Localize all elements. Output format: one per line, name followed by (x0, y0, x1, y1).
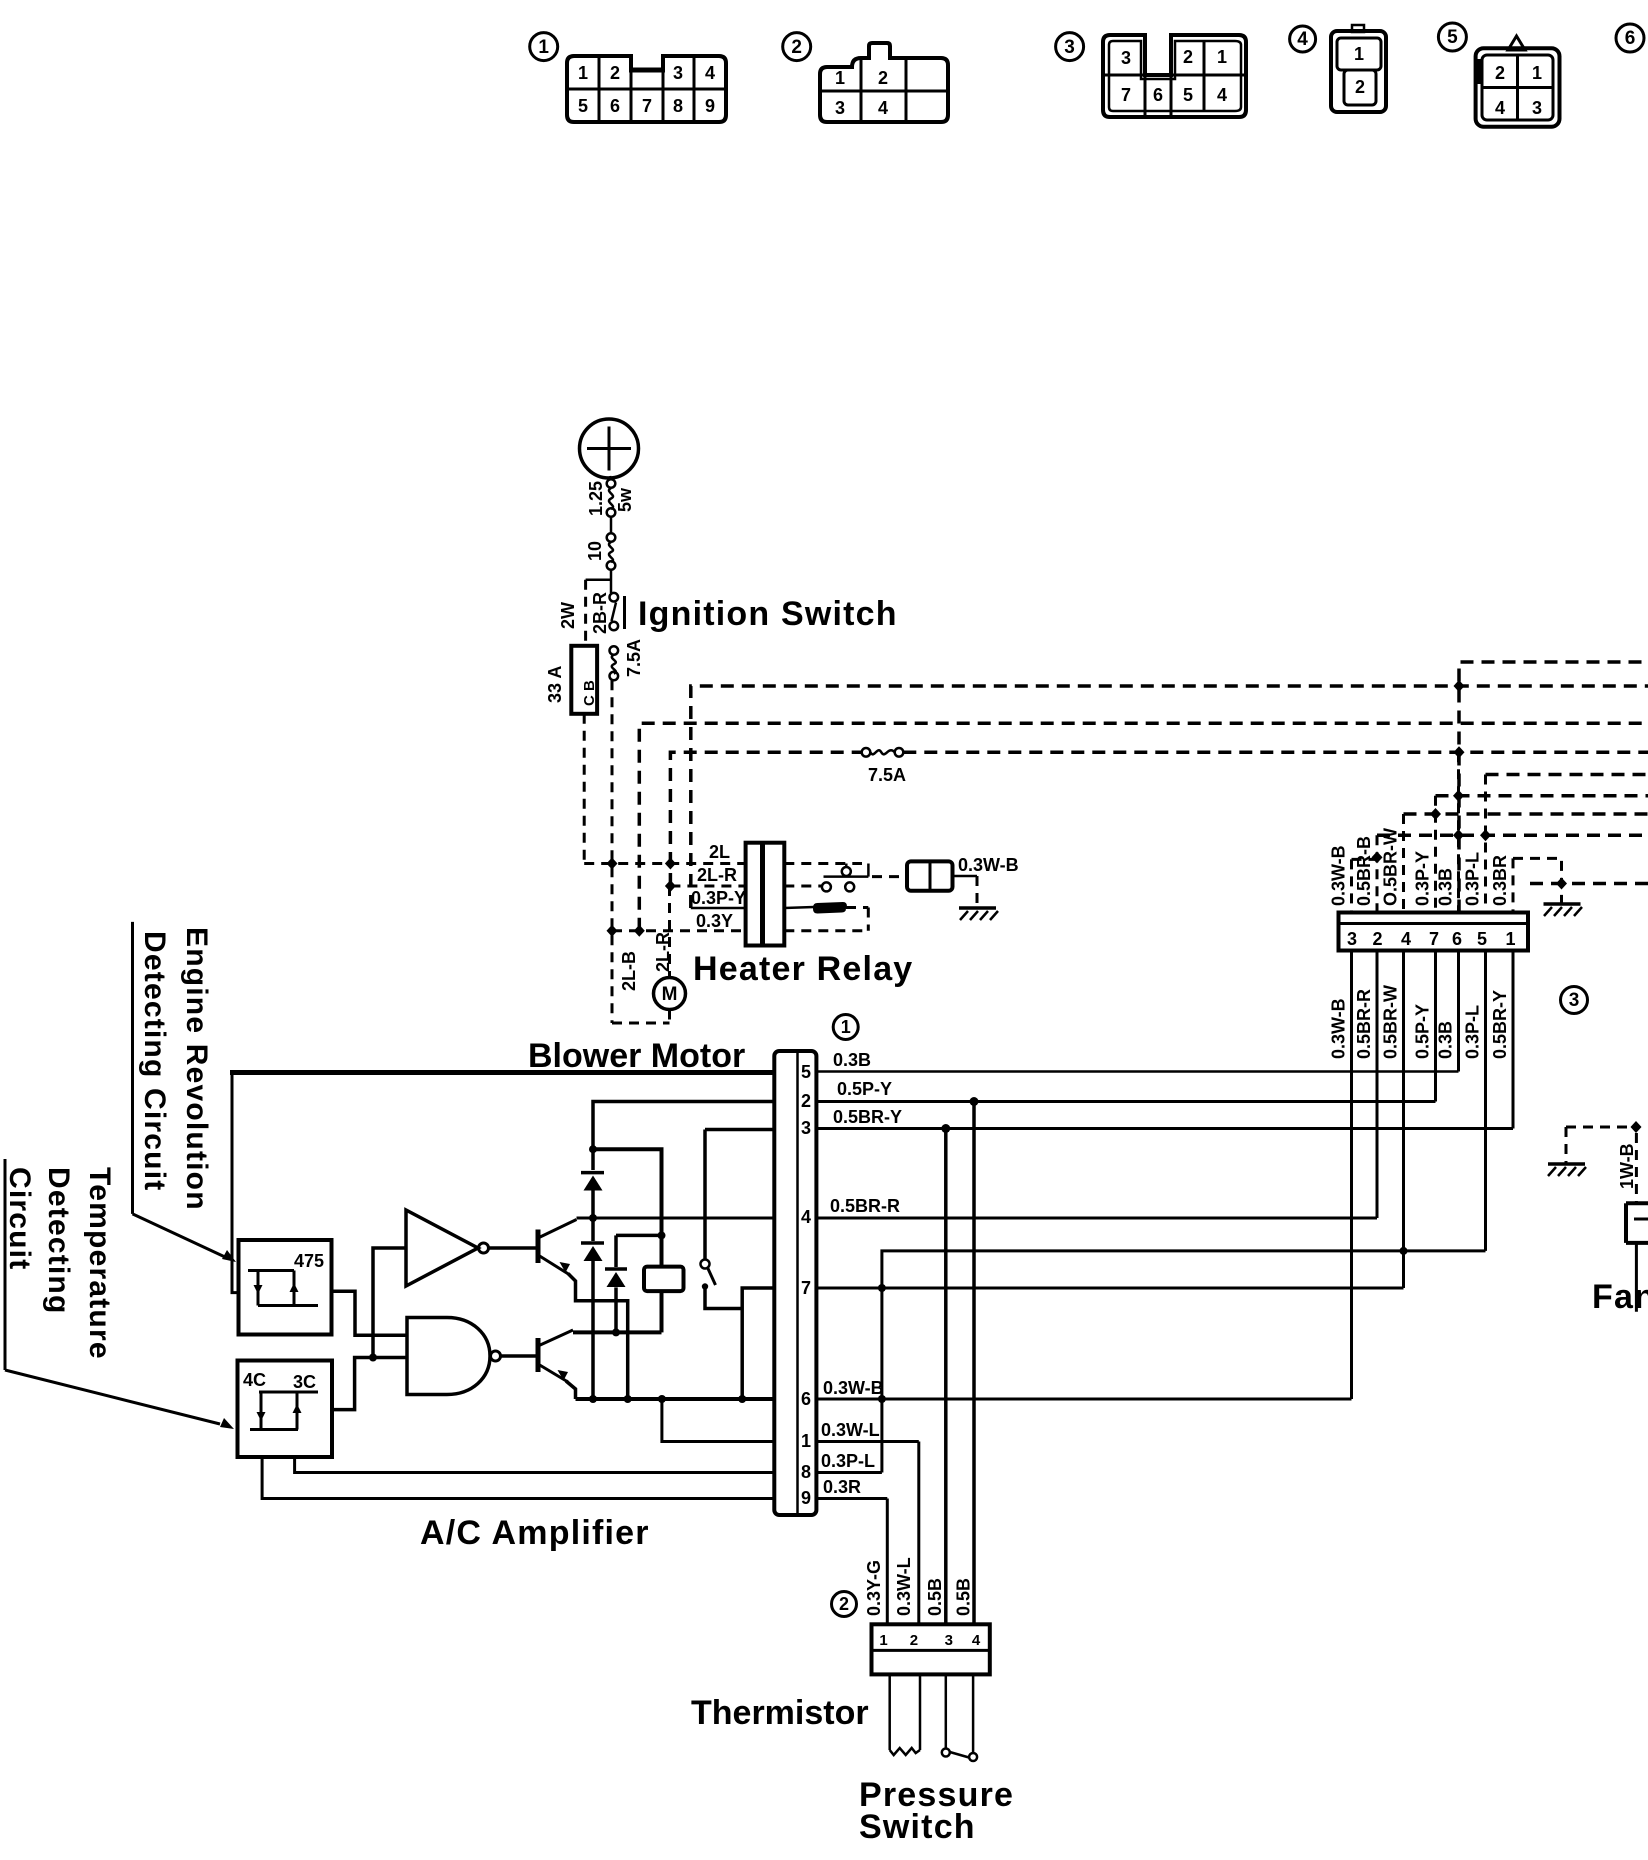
svg-text:9: 9 (801, 1488, 811, 1508)
wire 0.5BR-R pin4 right (816, 1196, 1377, 1218)
vertical column c3 to connector (1350, 951, 1353, 1399)
wire branch to relay coil top (593, 1149, 662, 1266)
svg-text:3: 3 (1064, 37, 1075, 58)
heater relay box (693, 843, 913, 988)
svg-text:0.3W-B: 0.3W-B (958, 855, 1019, 875)
svg-text:7: 7 (801, 1278, 811, 1298)
svg-text:A/C Amplifier: A/C Amplifier (420, 1514, 650, 1552)
svg-text:8: 8 (801, 1462, 811, 1482)
switch S1 (701, 1130, 743, 1309)
blower motor M (528, 886, 745, 1075)
svg-text:4: 4 (1217, 85, 1227, 105)
wire D3 top to coil wire (616, 1234, 662, 1238)
svg-text:2B-R: 2B-R (590, 592, 610, 634)
svg-text:1: 1 (1217, 47, 1227, 67)
wire 0.3P-Y (691, 907, 746, 910)
svg-text:2: 2 (1355, 77, 1365, 97)
svg-text:6: 6 (1625, 28, 1636, 49)
svg-text:0.3W-L: 0.3W-L (894, 1557, 914, 1616)
ground 1W-B (1548, 1121, 1642, 1203)
svg-text:0.5BR-Y: 0.5BR-Y (833, 1107, 902, 1127)
wire Q2 collector to relay coil (573, 1330, 662, 1334)
fuse 1.25 5W (586, 479, 635, 517)
thermistor/pressure connector (872, 1624, 990, 1674)
svg-text:5: 5 (1447, 27, 1458, 48)
svg-text:475: 475 (294, 1251, 324, 1271)
svg-text:Thermistor: Thermistor (691, 1694, 869, 1732)
connector 2 pinout (820, 43, 948, 122)
svg-text:5: 5 (1477, 929, 1487, 949)
svg-text:2L-R: 2L-R (697, 865, 737, 885)
wire input bus to inverter (373, 1248, 406, 1358)
svg-text:1: 1 (841, 1017, 851, 1037)
connector pair to ground (872, 855, 1019, 906)
svg-text:2: 2 (910, 1632, 918, 1649)
wire pin1 internal (662, 1399, 774, 1442)
svg-text:Temperature: Temperature (83, 1167, 116, 1360)
wire pin4 internal (Q1 collector) (577, 1217, 775, 1220)
vertical column c1 (1512, 951, 1515, 1129)
svg-text:0.5BR-B: 0.5BR-B (1354, 836, 1374, 906)
wire 4C3C out (332, 1358, 407, 1410)
dashed line 0.5BR-B to edge (1377, 834, 1648, 838)
bus line T4 dashed with fuse (670, 752, 861, 886)
transistor Q2 (538, 1330, 576, 1399)
svg-text:1: 1 (578, 63, 588, 83)
svg-text:5: 5 (801, 1062, 811, 1082)
svg-text:0.3B: 0.3B (1436, 868, 1456, 906)
svg-text:2: 2 (1495, 63, 1505, 83)
connector key 4 circled label (1290, 26, 1316, 52)
svg-text:2L-B: 2L-B (619, 951, 639, 991)
dashed line 0.5BR-W to edge (1404, 812, 1648, 816)
svg-text:0.5B: 0.5B (954, 1578, 974, 1616)
svg-text:1: 1 (801, 1431, 811, 1451)
fusible link 33 A (545, 646, 598, 714)
connector key 2 circled label (783, 33, 811, 61)
relay coil wire (784, 902, 868, 931)
wire 0.5P-Y pin2 right (816, 1079, 1435, 1106)
svg-text:1: 1 (879, 1632, 887, 1649)
svg-text:0.5BR-W: 0.5BR-W (1381, 985, 1401, 1059)
svg-text:3: 3 (1569, 990, 1580, 1011)
svg-text:2: 2 (1372, 929, 1382, 949)
svg-text:4: 4 (878, 98, 888, 118)
wire battery to fuse (610, 476, 611, 480)
wire pin5 thick (230, 1070, 774, 1075)
svg-text:0.5BR-R: 0.5BR-R (1354, 989, 1374, 1059)
svg-text:0.5B: 0.5B (925, 1578, 945, 1616)
wire pin7 internal (742, 1288, 774, 1399)
wire 0.3R pin9 right (816, 1477, 887, 1499)
pressure switch (859, 1674, 1014, 1846)
nand gate U2 (407, 1318, 501, 1395)
svg-text:0.3R: 0.3R (823, 1477, 861, 1497)
svg-text:6: 6 (1452, 929, 1462, 949)
vertical column c7 (1434, 951, 1437, 1102)
connector key 6 circled label (1616, 24, 1644, 52)
wire 0.3Y dashed (612, 929, 746, 932)
wire inverter out to Q1 base (489, 1246, 537, 1250)
svg-text:0.3W-B: 0.3W-B (1329, 998, 1349, 1059)
fuse 7.5A (610, 639, 645, 680)
connector key 3 circled label (1056, 33, 1084, 61)
wire pin2 internal corner (593, 1102, 774, 1171)
svg-text:3: 3 (1532, 98, 1542, 118)
wire pin6 internal thick (576, 1397, 775, 1401)
svg-text:Detecting Circuit: Detecting Circuit (138, 931, 171, 1191)
svg-text:33 A: 33 A (545, 666, 565, 703)
svg-text:2L: 2L (709, 842, 730, 862)
svg-text:2: 2 (801, 1091, 811, 1111)
svg-text:6: 6 (801, 1389, 811, 1409)
bus line T1 dashed (1459, 662, 1648, 913)
connector key 1 circled label (530, 33, 558, 61)
ground top right (1544, 904, 1583, 916)
wire 0.3Y-G col1 (886, 1499, 889, 1625)
svg-text:4C: 4C (243, 1370, 266, 1390)
dashed ground branch to edge (1530, 882, 1648, 886)
wire pin5 drop to box 475 (232, 1073, 239, 1293)
svg-text:4: 4 (801, 1207, 811, 1227)
svg-text:0.3P-L: 0.3P-L (1463, 1005, 1483, 1059)
wire 2L dashed (584, 862, 745, 865)
svg-text:2: 2 (839, 1594, 849, 1614)
svg-text:10: 10 (585, 541, 605, 561)
node diamonds on buses (1454, 680, 1465, 692)
svg-text:0.3BR: 0.3BR (1490, 855, 1510, 906)
bus line T3 dashed (639, 723, 1648, 931)
svg-text:3: 3 (835, 98, 845, 118)
svg-text:Fan: Fan (1592, 1278, 1648, 1316)
wire 0.3W-B pin6 right (816, 1378, 1351, 1399)
Q1 emitter arrowhead (560, 1262, 571, 1273)
svg-text:4: 4 (1401, 929, 1411, 949)
vertical column c4 (1402, 951, 1405, 1288)
svg-text:0.3P-Y: 0.3P-Y (691, 888, 746, 908)
wire dashed drop from fusible link (583, 714, 586, 864)
vertical column c5 (1484, 951, 1487, 1251)
svg-text:5: 5 (578, 96, 588, 116)
svg-text:5w: 5w (615, 487, 635, 512)
connector 3 pinout (1103, 35, 1246, 117)
svg-text:7.5A: 7.5A (624, 639, 644, 677)
svg-text:0.3P-L: 0.3P-L (1463, 852, 1483, 906)
svg-text:6: 6 (610, 96, 620, 116)
svg-text:2W: 2W (558, 602, 578, 629)
svg-text:0.3Y-G: 0.3Y-G (864, 1560, 884, 1616)
wire 0.5B col3 (944, 1129, 948, 1625)
vertical column c2 (1376, 951, 1379, 1218)
svg-text:7: 7 (642, 96, 652, 116)
wire nand out to Q2 base (501, 1354, 537, 1358)
svg-text:1W-B: 1W-B (1617, 1143, 1637, 1189)
svg-text:Heater Relay: Heater Relay (693, 950, 913, 988)
svg-text:4: 4 (972, 1632, 981, 1649)
relay contact wires (784, 864, 868, 892)
svg-text:9: 9 (705, 96, 715, 116)
wire dashed drop from 7.5A fuse (611, 680, 614, 1023)
svg-text:0.5BR-Y: 0.5BR-Y (1490, 990, 1510, 1059)
svg-text:Engine Revolution: Engine Revolution (180, 927, 213, 1211)
circled 2 (832, 1592, 857, 1617)
svg-text:M: M (662, 984, 678, 1005)
svg-text:3: 3 (673, 63, 683, 83)
svg-text:2: 2 (878, 68, 888, 88)
circled 1 (833, 1015, 858, 1040)
box 4C 3C (238, 1361, 333, 1458)
wire 0.5B col4 (972, 1102, 976, 1625)
junction diamonds (1453, 790, 1464, 802)
svg-text:4: 4 (1495, 98, 1505, 118)
svg-text:3: 3 (801, 1118, 811, 1138)
svg-text:3: 3 (1121, 48, 1131, 68)
svg-text:Detecting: Detecting (42, 1167, 75, 1315)
svg-text:0.3P-L: 0.3P-L (821, 1451, 875, 1471)
fuse 7.5A on bus (862, 748, 906, 785)
relay coil K1 (644, 1267, 684, 1333)
thermistor (691, 1674, 920, 1755)
node (369, 1354, 377, 1362)
bus line T2 dashed (691, 686, 1648, 908)
battery (580, 419, 639, 478)
svg-text:7: 7 (1429, 929, 1439, 949)
svg-text:0.5P-Y: 0.5P-Y (837, 1079, 892, 1099)
svg-text:1: 1 (1532, 63, 1542, 83)
svg-text:1: 1 (1354, 44, 1364, 64)
svg-text:0.3W-B: 0.3W-B (823, 1378, 884, 1398)
ignition switch (590, 592, 898, 634)
svg-text:0.3B: 0.3B (1436, 1021, 1456, 1059)
svg-text:0.3P-Y: 0.3P-Y (1413, 851, 1433, 906)
transistor Q1 (538, 1220, 628, 1400)
wire 2W dashed drop to fusible link (584, 580, 587, 646)
svg-text:O.5BR-W: O.5BR-W (1381, 828, 1401, 906)
vertical column c6 (1457, 951, 1460, 1072)
svg-text:7.5A: 7.5A (868, 765, 906, 785)
dashed bridge 0.3W-B (1352, 858, 1378, 861)
node diamond (607, 858, 618, 870)
svg-text:0.3B: 0.3B (833, 1050, 871, 1070)
leader arrow to 475 (133, 922, 237, 1262)
wire 2L-R dashed (670, 885, 745, 888)
svg-text:4: 4 (705, 63, 715, 83)
op-amp inverter U1 (406, 1210, 489, 1286)
A/C amplifier connector strip (774, 1051, 816, 1515)
svg-text:1: 1 (835, 68, 845, 88)
fuse 10 (585, 533, 615, 570)
fan connector (1626, 1203, 1648, 1311)
wire pin9 internal (262, 1457, 774, 1499)
svg-text:0.3W-B: 0.3W-B (1329, 845, 1349, 906)
wire pin3 internal (705, 1128, 774, 1132)
diode D1 (581, 1173, 604, 1241)
svg-text:8: 8 (673, 96, 683, 116)
leader arrow to 4C3C (5, 1159, 234, 1429)
svg-text:4: 4 (1297, 29, 1308, 50)
svg-text:3: 3 (945, 1632, 953, 1649)
connector key 5 circled label (1438, 23, 1466, 51)
svg-text:7: 7 (1121, 85, 1131, 105)
svg-text:2: 2 (1183, 47, 1193, 67)
dashed verticals above connector (1350, 859, 1353, 912)
svg-text:0.3W-L: 0.3W-L (821, 1420, 880, 1440)
svg-text:3: 3 (1347, 929, 1357, 949)
svg-text:3C: 3C (293, 1372, 316, 1392)
svg-text:2L-R: 2L-R (653, 932, 673, 972)
wire with 2W branch node (610, 570, 613, 593)
wire pin7 right (816, 1287, 1403, 1290)
wire branch 0.3W-B upper (882, 1251, 1486, 1473)
ground (959, 908, 998, 920)
svg-text:2: 2 (610, 63, 620, 83)
svg-text:0.5BR-R: 0.5BR-R (830, 1196, 900, 1216)
svg-text:1.25: 1.25 (586, 481, 606, 516)
diode D3 (605, 1235, 627, 1332)
svg-text:5: 5 (1183, 85, 1193, 105)
connector 1 pinout (567, 56, 726, 122)
circled 3 (1561, 987, 1588, 1014)
connector 3 body (1339, 913, 1529, 951)
wire 0.3W-L pin1 right (816, 1420, 918, 1442)
wire (610, 517, 613, 533)
svg-text:Switch: Switch (859, 1808, 976, 1846)
svg-text:Blower Motor: Blower Motor (528, 1037, 745, 1075)
dashed 0.3BR to ground (1513, 858, 1562, 903)
wire 0.3P-L pin8 right (816, 1451, 882, 1473)
diode D2 (581, 1243, 604, 1399)
dashed line 0.3P-Y to edge (1436, 794, 1648, 798)
svg-text:Circuit: Circuit (3, 1167, 36, 1270)
svg-text:0.5P-Y: 0.5P-Y (1413, 1004, 1433, 1059)
box 475 (239, 1240, 332, 1335)
wire pin8 internal (295, 1457, 775, 1473)
svg-text:6: 6 (1153, 85, 1163, 105)
svg-text:1: 1 (1505, 929, 1515, 949)
wire 475 out to NAND in1 (332, 1291, 408, 1335)
dashed line 0.3P-L to edge (1486, 773, 1648, 777)
svg-text:0.3Y: 0.3Y (696, 911, 733, 931)
connector 4 pinout (1331, 25, 1386, 112)
wire 0.3W-L col2 (917, 1442, 920, 1625)
svg-text:2: 2 (791, 37, 802, 58)
connector 5 pinout (1474, 36, 1560, 127)
wire 0.5BR-Y pin3 right (816, 1107, 1513, 1133)
svg-text:Ignition Switch: Ignition Switch (638, 595, 898, 633)
wire 0.3B pin5 right (816, 1050, 1458, 1072)
svg-text:1: 1 (538, 37, 549, 58)
svg-text:C B: C B (581, 680, 598, 706)
